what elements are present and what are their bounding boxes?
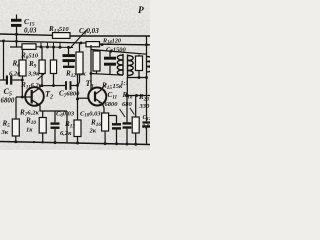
- label C10 0,03: [80, 111, 101, 119]
- capacitor C12: [146, 96, 148, 122]
- wire ticks rail B to wire C: [40, 42, 42, 47]
- label T3: [86, 79, 94, 90]
- wire emitter horizontal: [40, 110, 67, 112]
- wire emitter node horizontal: [104, 113, 117, 116]
- wire: vertical from rail A to wire C at x16.5: [16, 34, 18, 47]
- svg-text:330: 330: [139, 103, 151, 110]
- label R18 680: [122, 91, 133, 108]
- svg-text:R13510: R13510: [48, 25, 69, 34]
- wire: top rail A left: [0, 34, 53, 35]
- capacitor C6 (0,03) bypass: [54, 111, 56, 122]
- label R13 510: [48, 25, 69, 34]
- capacitor C15: [11, 15, 22, 35]
- label R6 6,2k: [9, 60, 21, 78]
- resistor R20 (330) vertical: [135, 96, 137, 118]
- svg-text:2к: 2к: [89, 128, 97, 135]
- capacitor C9 in block: [109, 51, 111, 57]
- svg-text:6,2к: 6,2к: [60, 130, 72, 137]
- label R10 1k: [25, 117, 36, 134]
- svg-text:6800: 6800: [105, 101, 119, 108]
- label R12 18k: [65, 70, 86, 79]
- label R9 3,9k: [27, 60, 40, 78]
- svg-text:C80,03: C80,03: [79, 27, 99, 36]
- label C15 0,03: [24, 17, 37, 35]
- arrow of trimmer C8 across rails: [70, 30, 87, 49]
- resistor R13 (6,2k) lower vertical: [77, 99, 79, 120]
- svg-text:Р: Р: [138, 6, 144, 16]
- label C11 6800: [105, 91, 119, 108]
- wire base node to T3: [78, 97, 89, 99]
- transformer secondary winding: [128, 55, 134, 78]
- wire base node to R5: [16, 96, 22, 98]
- base node junction: [21, 96, 24, 99]
- paper background: [0, 0, 150, 150]
- transformer primary winding: [117, 54, 123, 75]
- wire T3 emitter down: [103, 104, 104, 113]
- svg-text:C60,03: C60,03: [56, 111, 75, 119]
- svg-text:1к: 1к: [26, 127, 33, 134]
- trimmer capacitor (stack): [68, 47, 70, 54]
- node rail B x146.5: [145, 43, 148, 46]
- wire from C5 down to base node: [21, 80, 23, 97]
- block top wire: [91, 50, 147, 55]
- capacitor C11 (6800): [116, 116, 118, 124]
- svg-text:0,03: 0,03: [24, 27, 37, 35]
- wire C right of R8: [36, 46, 73, 49]
- label R8 510: [20, 52, 39, 61]
- resistor R11 (6,2k) vertical: [53, 47, 55, 60]
- wire: rail B right segment: [100, 43, 151, 46]
- label R20 330: [138, 93, 150, 110]
- label C7 6800: [59, 90, 80, 99]
- wire T2 collector up-right to collector node: [39, 86, 42, 88]
- label T2: [45, 90, 53, 101]
- resistor (damping) in output tank: [138, 55, 140, 56]
- label C6 0,03: [56, 111, 75, 119]
- wire block to T3 collector: [90, 74, 92, 90]
- resistor R9 (3,9k) vertical: [41, 47, 43, 60]
- label C5 6800: [1, 87, 15, 105]
- label R15 15k with pointer: [101, 82, 123, 91]
- junction nodes on ground rail: [14, 140, 17, 143]
- wire: top rail A right: [70, 35, 150, 37]
- resistor R12? (18k) left of block: [79, 43, 81, 52]
- label R16 2k: [89, 119, 102, 135]
- label 1:1: [121, 81, 129, 87]
- svg-text:C12: C12: [143, 115, 151, 121]
- svg-text:6800: 6800: [1, 98, 15, 105]
- label R13 6,2k: [60, 120, 75, 137]
- wire collector node y85.5: [41, 85, 66, 87]
- transistor T2: [22, 87, 44, 106]
- label C8 0,03: [79, 27, 99, 36]
- winding output coil on right vertical: [147, 57, 153, 73]
- resistor R14 (120) in series in rail B: [86, 42, 100, 47]
- resistor R16 (2k) vertical: [102, 113, 109, 131]
- label C12: [142, 115, 153, 130]
- resistor R8 (510): [22, 44, 36, 50]
- svg-text:3к: 3к: [1, 129, 9, 136]
- wire output node to right edge: [127, 95, 150, 97]
- capacitor C12a: [126, 96, 128, 123]
- capacitor C5 (6800) series input: [0, 79, 6, 81]
- pointer diagonal near R11: [38, 73, 46, 80]
- svg-text:3,9к: 3,9к: [27, 71, 40, 78]
- wire: left edge vertical: [3, 41, 5, 80]
- pointer line from label 330 to resistor: [130, 108, 134, 115]
- capacitor C7 (6800) series: [65, 81, 67, 90]
- resistor R13 (510) in series in rail A: [53, 33, 71, 39]
- resistor R10 (1k) vertical: [42, 111, 44, 118]
- label R7 6,2k: [19, 109, 39, 118]
- resistor R6 (6,2k) vertical: [22, 49, 24, 60]
- svg-text:C100,03: C100,03: [80, 111, 101, 119]
- label R14 120: [102, 39, 121, 46]
- resistor in block: [96, 50, 98, 51]
- left vertical of block: [90, 45, 92, 74]
- right edge vertical (rail A to output node): [146, 36, 148, 96]
- label P (figure caption fragment): [138, 6, 144, 16]
- wire T2 emitter down to emitter wire: [39, 105, 41, 111]
- svg-text:15к: 15к: [113, 83, 124, 90]
- block bottom wire: [91, 74, 123, 76]
- wire: rail B left segment: [0, 41, 86, 43]
- node on rail B: [80, 41, 83, 44]
- svg-text:0,03: 0,03: [142, 124, 150, 130]
- transistor T3: [88, 88, 106, 106]
- junction nodes on wire C: [40, 45, 43, 48]
- node junction of C15 on rail A: [15, 33, 18, 36]
- wire from RC block down to T3 base node: [77, 75, 79, 99]
- pointer line from label 680 to cap: [120, 109, 125, 117]
- wire from secondary bottom down: [126, 78, 128, 96]
- wire bottom of output tank: [128, 77, 147, 79]
- label R5 3k: [1, 120, 11, 137]
- node rail B x102: [101, 43, 104, 46]
- wire C with R8: [10, 46, 22, 48]
- ground rail: [0, 142, 150, 145]
- label C9 1500: [106, 47, 127, 55]
- label R11 6,2k: [20, 81, 43, 90]
- resistor R5 (3k) vertical: [12, 119, 19, 136]
